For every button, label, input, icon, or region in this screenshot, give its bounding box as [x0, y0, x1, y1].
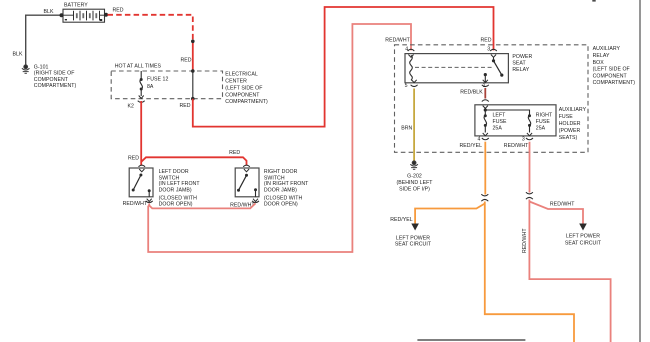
svg-text:RED: RED [180, 103, 191, 109]
wire RED dashed battery feed [108, 15, 193, 71]
svg-text:RED/WHT: RED/WHT [123, 201, 148, 207]
svg-text:(BEHIND LEFT: (BEHIND LEFT [396, 180, 433, 186]
svg-text:BLK: BLK [13, 51, 23, 57]
svg-text:5: 5 [405, 83, 408, 89]
switch S1 left door [129, 165, 153, 203]
svg-text:DOOR JAMB): DOOR JAMB) [159, 187, 192, 193]
relay K1 POWER SEAT RELAY [405, 49, 508, 86]
svg-text:RED/YEL: RED/YEL [460, 143, 483, 149]
wire feed inside box (black) [192, 71, 194, 99]
svg-text:COMPARTMENT): COMPARTMENT) [34, 83, 77, 89]
svg-text:HOT AT ALL TIMES: HOT AT ALL TIMES [115, 64, 162, 70]
wire BLK battery to ground [26, 15, 62, 65]
pin 3 connector [490, 49, 497, 57]
svg-text:(RIGHT SIDE OF: (RIGHT SIDE OF [34, 71, 75, 77]
svg-text:RED: RED [113, 8, 124, 14]
svg-text:(CLOSED WITH: (CLOSED WITH [159, 196, 198, 202]
svg-text:COMPONENT: COMPONENT [593, 74, 628, 80]
svg-text:SEAT: SEAT [512, 60, 526, 66]
svg-text:SIDE OF I/P): SIDE OF I/P) [399, 187, 430, 193]
pin 3 connector fuse holder [526, 133, 533, 140]
relay contact [493, 57, 495, 61]
svg-text:(POWER: (POWER [559, 128, 581, 134]
svg-text:ELECTRICAL: ELECTRICAL [225, 72, 258, 78]
svg-text:POWER: POWER [512, 54, 532, 60]
svg-text:AUXILIARY: AUXILIARY [593, 46, 621, 52]
connector inline RED/YEL [481, 194, 488, 201]
battery B1 [60, 9, 109, 22]
svg-text:AUXILIARY: AUXILIARY [559, 107, 587, 113]
svg-text:DOOR OPEN): DOOR OPEN) [159, 202, 193, 208]
svg-text:LEFT DOOR: LEFT DOOR [159, 169, 189, 175]
wire RED/WHT fuse out down [529, 142, 610, 342]
wire RED/BLK relay pin1 to fuse holder [484, 88, 486, 99]
svg-text:RED/YEL: RED/YEL [390, 217, 413, 223]
wire RED fuse K2 to door switches [141, 101, 246, 166]
border panel line right [639, 0, 641, 342]
svg-text:COMPARTMENT): COMPARTMENT) [593, 80, 636, 86]
svg-text:3: 3 [522, 137, 525, 143]
pin 1 connector [482, 80, 489, 87]
svg-text:G-101: G-101 [34, 64, 49, 70]
connector into fuse holder [482, 100, 489, 109]
box power seat switch (cut off at bottom) [417, 339, 525, 341]
svg-text:BRN: BRN [401, 126, 412, 132]
fuse left 25A [484, 110, 486, 133]
svg-text:LEFT POWER: LEFT POWER [566, 234, 600, 240]
svg-text:8A: 8A [147, 84, 154, 90]
svg-text:SEAT CIRCUIT: SEAT CIRCUIT [565, 240, 602, 246]
internal dashed link [415, 66, 492, 68]
svg-text:G-202: G-202 [407, 173, 422, 179]
pin K2 connector [138, 96, 145, 103]
svg-text:RED/BLK: RED/BLK [460, 90, 483, 96]
svg-text:RED/WHT: RED/WHT [385, 38, 410, 44]
ground G-101 [22, 65, 30, 73]
svg-text:RIGHT DOOR: RIGHT DOOR [264, 169, 298, 175]
svg-text:25A: 25A [536, 125, 546, 131]
svg-text:HOLDER: HOLDER [559, 121, 581, 127]
fuse box HOT AT ALL TIMES (electrical center) [111, 71, 222, 99]
svg-text:COMPONENT: COMPONENT [225, 92, 260, 98]
svg-text:BOX: BOX [593, 60, 605, 66]
svg-text:COMPARTMENT): COMPARTMENT) [225, 99, 268, 105]
svg-text:RED: RED [128, 156, 139, 162]
node box bottom [191, 97, 195, 101]
svg-text:3: 3 [487, 46, 490, 52]
arrow RED/YEL circuit [411, 224, 419, 231]
svg-text:LEFT POWER: LEFT POWER [396, 235, 430, 241]
pin top connector [139, 165, 146, 172]
connector inline RED/WHT [526, 192, 533, 199]
svg-text:RELAY: RELAY [593, 53, 610, 59]
fuse holder box AUXILIARY FUSE HOLDER [475, 105, 556, 136]
svg-text:K2: K2 [128, 104, 135, 110]
wire RED electrical center to relay pin 3 [193, 7, 494, 127]
svg-text:RED/WHT: RED/WHT [522, 228, 528, 253]
pin top connector [243, 165, 250, 172]
fuse right 25A [528, 116, 530, 133]
svg-text:COMPONENT: COMPONENT [34, 77, 69, 83]
svg-text:4: 4 [405, 46, 408, 52]
svg-text:FUSE: FUSE [559, 114, 574, 120]
svg-text:SEATS): SEATS) [559, 135, 578, 141]
svg-text:(IN RIGHT FRONT: (IN RIGHT FRONT [264, 181, 309, 187]
svg-text:BATTERY: BATTERY [64, 2, 88, 8]
svg-text:(CLOSED WITH: (CLOSED WITH [264, 196, 303, 202]
svg-text:LEFT: LEFT [493, 112, 507, 118]
wire RED/WHT door switches to relay pin 4 [148, 24, 411, 252]
svg-text:RED: RED [229, 150, 240, 156]
svg-text:RELAY: RELAY [512, 67, 529, 73]
svg-text:DOOR OPEN): DOOR OPEN) [264, 202, 298, 208]
svg-text:SEAT CIRCUIT: SEAT CIRCUIT [395, 242, 432, 248]
switch S2 right door [235, 165, 259, 203]
svg-text:DOOR JAMB): DOOR JAMB) [264, 187, 297, 193]
svg-text:RIGHT: RIGHT [536, 112, 553, 118]
node splice [191, 40, 195, 44]
svg-text:(IN LEFT FRONT: (IN LEFT FRONT [159, 181, 201, 187]
pin 4 connector fuse holder [482, 133, 489, 140]
svg-text:RED: RED [481, 38, 492, 44]
svg-text:25A: 25A [493, 125, 503, 131]
svg-text:FUSE: FUSE [493, 119, 508, 125]
svg-text:RED: RED [181, 58, 192, 64]
pin bottom connector [146, 199, 153, 203]
node box top [191, 69, 195, 73]
pin 5 connector [411, 80, 418, 87]
svg-text:RED/WHT: RED/WHT [550, 202, 575, 208]
pin 4 connector [408, 49, 415, 57]
wire BRN relay pin5 to ground [413, 89, 415, 162]
svg-text:FUSE 12: FUSE 12 [147, 76, 168, 82]
coil [410, 55, 413, 80]
artifact cut-off glyph top edge [592, 0, 595, 2]
svg-text:FUSE: FUSE [536, 119, 551, 125]
node fuse holder feed [484, 108, 487, 111]
svg-text:BLK: BLK [44, 9, 54, 15]
pin bottom connector [252, 199, 259, 203]
fuse F12 (FUSE 12 8A) [140, 71, 143, 96]
svg-text:CENTER: CENTER [225, 79, 247, 85]
wire RED/YEL fuse out down [415, 142, 574, 342]
svg-text:4: 4 [478, 137, 481, 143]
svg-text:(LEFT SIDE OF: (LEFT SIDE OF [593, 67, 630, 73]
arrow RED/WHT circuit [579, 224, 587, 231]
box auxiliary relay box (dashed) [395, 45, 589, 153]
svg-text:1: 1 [483, 83, 486, 89]
svg-text:RED/WHT: RED/WHT [504, 143, 529, 149]
wire internal feed to right fuse [485, 110, 529, 116]
svg-text:(LEFT SIDE OF: (LEFT SIDE OF [225, 86, 262, 92]
ground G-202 [410, 161, 418, 169]
